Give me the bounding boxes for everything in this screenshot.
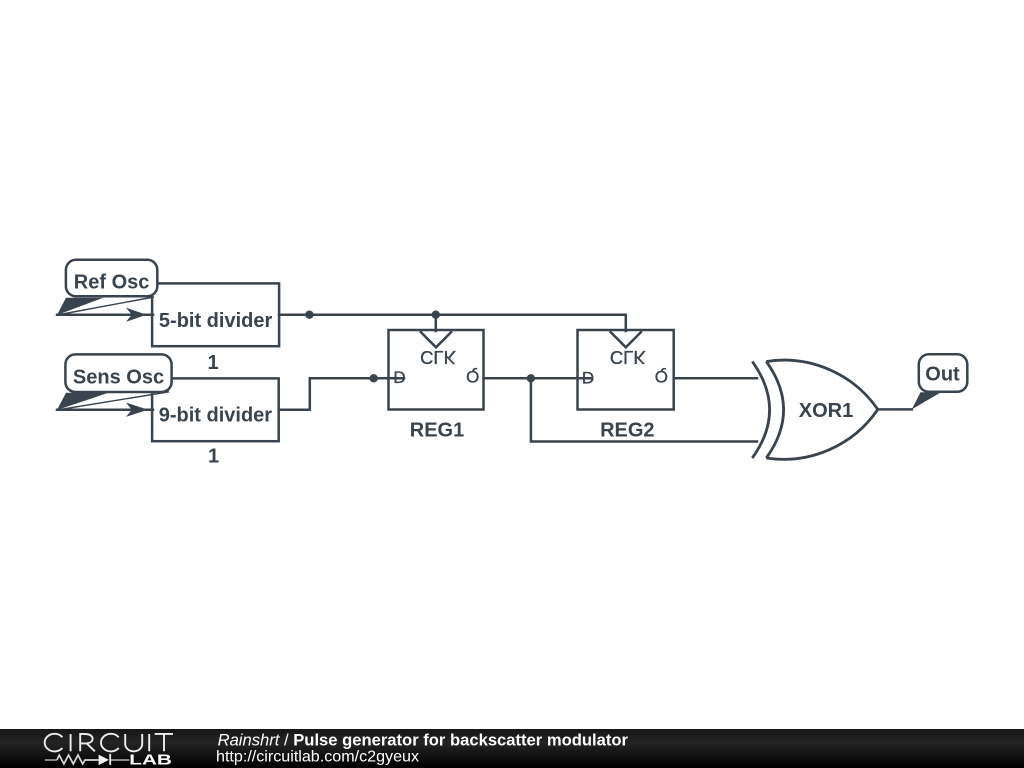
svg-text:Out: Out xyxy=(925,363,960,385)
svg-text:REG2: REG2 xyxy=(600,420,654,442)
svg-text:D: D xyxy=(582,368,594,387)
svg-text:Q: Q xyxy=(466,367,479,386)
svg-text:LAB: LAB xyxy=(129,752,172,768)
svg-text:CLK: CLK xyxy=(610,347,647,368)
svg-text:Ref Osc: Ref Osc xyxy=(74,271,150,293)
svg-text:5-bit divider: 5-bit divider xyxy=(159,310,273,332)
svg-text:http://circuitlab.com/c2gyeux: http://circuitlab.com/c2gyeux xyxy=(216,748,419,766)
svg-text:1: 1 xyxy=(208,446,219,468)
svg-text:1: 1 xyxy=(207,352,218,374)
svg-text:9-bit divider: 9-bit divider xyxy=(159,405,273,427)
svg-text:Q: Q xyxy=(655,367,668,386)
svg-text:Sens Osc: Sens Osc xyxy=(73,366,164,388)
svg-text:REG1: REG1 xyxy=(410,420,464,442)
svg-text:CLK: CLK xyxy=(420,347,457,368)
svg-text:D: D xyxy=(393,368,405,387)
svg-text:XOR1: XOR1 xyxy=(799,400,853,422)
